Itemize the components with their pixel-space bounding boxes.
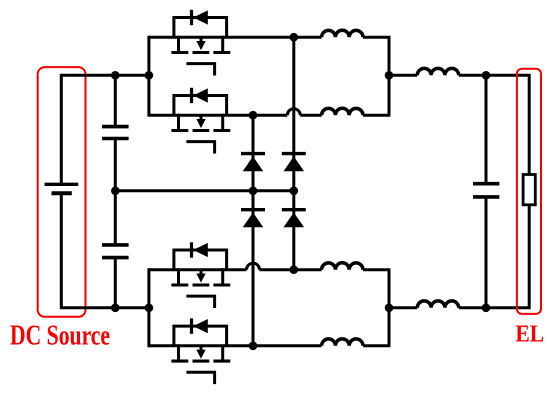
inductor L2 — [322, 108, 363, 115]
wire top output to L5 — [389, 74, 417, 77]
MOSFET Q3 with body diode — [171, 242, 230, 308]
node: top group input junction — [145, 71, 154, 80]
battery V1 long plate — [45, 183, 79, 186]
node: Q3 rail / column B junction — [290, 265, 299, 274]
diode D2 — [282, 154, 306, 172]
node: column A / middle wire junction — [249, 187, 258, 196]
node: bottom output / Cout junction — [482, 304, 491, 313]
wire Q1 rail left — [149, 36, 322, 39]
node: Q1 rail / column B junction — [290, 33, 299, 42]
wire L2 to right vertical — [363, 114, 390, 117]
wire crossover hump Q2 rail over column B — [287, 109, 300, 115]
MOSFET Q2 with body diode — [171, 88, 230, 154]
inductor L6 — [417, 301, 458, 308]
diode D4 — [282, 210, 306, 228]
wire Cout bottom lead — [485, 197, 488, 308]
node: Q2 rail / column A junction — [249, 111, 258, 120]
wire Q3 rail mid — [260, 268, 322, 271]
wire L5 to load — [459, 75, 530, 174]
load resistor EL body — [523, 175, 535, 205]
red box around EL — [517, 69, 541, 314]
wire C2 bottom lead — [114, 258, 117, 308]
battery V1 short plate — [52, 191, 72, 195]
wire L6 to load — [459, 205, 530, 308]
wire diode column B — [292, 37, 295, 270]
battery V1 positive lead wire — [61, 75, 149, 184]
wire Q4 rail left — [149, 344, 322, 347]
node: Q4 rail / column A junction — [249, 342, 258, 351]
wire Q2 rail right — [300, 114, 321, 117]
diode D1 — [241, 154, 265, 172]
label EL — [515, 321, 544, 348]
node: bottom group input junction — [145, 304, 154, 313]
capacitor Cout top plate — [473, 182, 499, 186]
battery V1 negative lead wire — [61, 193, 149, 308]
wire crossover hump Q3 rail over column A — [247, 263, 260, 270]
inductor L1 — [322, 30, 363, 37]
inductor L3 — [322, 263, 363, 270]
wire L1 to right vertical — [363, 37, 389, 115]
svg-text:EL: EL — [515, 321, 544, 348]
capacitor C1 bottom plate — [102, 137, 129, 141]
wire L4 to right vertical — [363, 344, 390, 347]
node: top rail / C1 tap junction — [111, 71, 120, 80]
wire Q3 rail left — [149, 268, 247, 271]
inductor L5 — [417, 68, 458, 75]
label DC Source — [10, 321, 110, 352]
MOSFET Q1 with body diode — [171, 10, 230, 76]
wire Cout top lead — [485, 75, 488, 183]
wire L3 to right vertical — [363, 270, 389, 346]
wire bottom output to L6 — [389, 306, 417, 309]
inductor L4 — [322, 339, 363, 346]
wire midpoint to diode bridge — [115, 189, 293, 192]
node: column B / middle wire junction — [290, 187, 299, 196]
red box around DC source — [38, 67, 86, 317]
MOSFET Q4 with body diode — [171, 318, 230, 384]
wire C1 top lead — [114, 75, 117, 126]
diode D3 — [241, 210, 265, 228]
svg-text:DC Source: DC Source — [10, 321, 110, 352]
wire C1 bottom lead — [114, 139, 117, 191]
node: capacitor midpoint junction — [111, 187, 120, 196]
capacitor Cout bottom plate — [473, 195, 499, 199]
capacitor C2 top plate — [102, 243, 129, 247]
capacitor C1 top plate — [102, 125, 129, 129]
wire bottom group split vertical — [147, 268, 150, 347]
node: bottom rail / C2 tap junction — [111, 304, 120, 313]
node: top output / Cout junction — [482, 71, 491, 80]
capacitor C2 bottom plate — [102, 256, 129, 260]
node: bottom interleave output junction — [385, 304, 394, 313]
wire top group split vertical — [147, 36, 150, 117]
wire diode column A — [252, 115, 255, 346]
wire Q2 rail left — [149, 114, 287, 117]
wire C2 top lead — [114, 191, 117, 245]
node: top interleave output junction — [385, 71, 394, 80]
